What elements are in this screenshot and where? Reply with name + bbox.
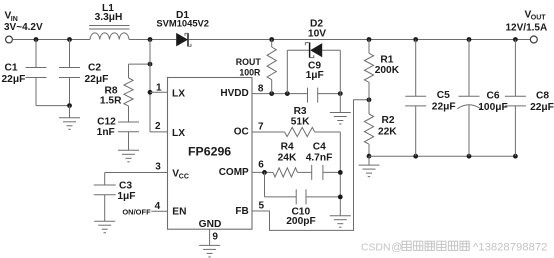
svg-text:22μF: 22μF <box>85 74 109 85</box>
svg-text:FB: FB <box>235 206 248 217</box>
svg-text:C12: C12 <box>97 117 116 128</box>
svg-text:22K: 22K <box>378 127 397 138</box>
svg-text:100R: 100R <box>239 67 261 77</box>
svg-text:5: 5 <box>259 200 265 211</box>
svg-text:C2: C2 <box>88 62 101 73</box>
svg-text:CSDN: CSDN <box>361 242 390 253</box>
svg-text:@: @ <box>391 241 402 253</box>
svg-text:CC: CC <box>179 173 189 180</box>
svg-text:10V: 10V <box>308 29 326 40</box>
svg-text:200K: 200K <box>375 65 400 76</box>
svg-text:1μF: 1μF <box>117 191 135 202</box>
svg-text:24K: 24K <box>278 153 297 164</box>
svg-text:3V~4.2V: 3V~4.2V <box>4 22 43 33</box>
svg-text:R1: R1 <box>380 54 393 65</box>
svg-text:4.7nF: 4.7nF <box>306 153 333 164</box>
svg-text:51K: 51K <box>291 116 310 127</box>
svg-text:OUT: OUT <box>531 15 547 22</box>
svg-text:COMP: COMP <box>219 167 249 178</box>
svg-text:LX: LX <box>172 88 185 99</box>
svg-text:EN: EN <box>172 207 186 218</box>
svg-text:3: 3 <box>155 162 161 173</box>
svg-text:6: 6 <box>258 159 264 170</box>
svg-text:LX: LX <box>172 128 185 139</box>
svg-text:R4: R4 <box>281 142 294 153</box>
svg-text:4: 4 <box>155 201 161 212</box>
svg-text:GND: GND <box>199 219 222 230</box>
svg-text:1μF: 1μF <box>306 70 324 81</box>
svg-text:R2: R2 <box>381 115 394 126</box>
svg-text:3.3μH: 3.3μH <box>95 12 123 23</box>
svg-text:C8: C8 <box>536 90 549 101</box>
svg-text:22μF: 22μF <box>2 74 26 85</box>
svg-text:22μF: 22μF <box>432 102 456 113</box>
svg-text:SVM1045V2: SVM1045V2 <box>156 18 209 29</box>
svg-text:1: 1 <box>156 82 162 93</box>
svg-text:1nF: 1nF <box>97 127 115 138</box>
svg-text:C1: C1 <box>5 62 18 73</box>
svg-text:ON/OFF: ON/OFF <box>122 208 151 217</box>
svg-text:200pF: 200pF <box>286 216 315 227</box>
svg-text:100μF: 100μF <box>478 102 507 113</box>
svg-text:OC: OC <box>234 127 249 138</box>
svg-text:2: 2 <box>155 121 161 132</box>
svg-text:FP6296: FP6296 <box>188 145 231 159</box>
svg-text:22μF: 22μF <box>530 102 554 113</box>
svg-text:C5: C5 <box>437 90 450 101</box>
svg-text:9: 9 <box>212 232 218 243</box>
svg-text:8: 8 <box>258 83 264 94</box>
svg-text:C4: C4 <box>313 142 326 153</box>
svg-text:HVDD: HVDD <box>220 88 248 99</box>
svg-text:C6: C6 <box>486 90 499 101</box>
svg-text:7: 7 <box>258 121 264 132</box>
svg-text:1.5R: 1.5R <box>100 96 122 107</box>
svg-text:^13828798872: ^13828798872 <box>473 241 547 253</box>
svg-text:ROUT: ROUT <box>236 57 262 67</box>
svg-text:12V/1.5A: 12V/1.5A <box>506 23 548 34</box>
